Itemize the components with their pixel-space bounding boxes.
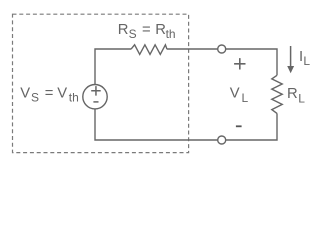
wire bottom (source down, across, up to RL): [95, 109, 277, 140]
label VS = Vth: [20, 86, 79, 105]
svg-text:R: R: [118, 22, 129, 38]
svg-text:R: R: [287, 86, 298, 102]
svg-text:V: V: [57, 86, 67, 102]
voltage source VS (circle): [83, 85, 107, 109]
resistor RS (series/Thevenin resistance): [131, 45, 167, 55]
terminal node B (bottom, open circle): [218, 136, 226, 144]
current arrow IL (downward): [290, 46, 292, 67]
svg-text:=: =: [142, 22, 151, 38]
terminal node A (top, open circle): [218, 45, 226, 53]
label plus (load polarity): [234, 58, 245, 69]
svg-text:L: L: [242, 91, 249, 105]
svg-text:S: S: [129, 27, 137, 41]
label IL: [299, 49, 310, 68]
svg-text:V: V: [20, 86, 30, 102]
svg-text:th: th: [69, 91, 79, 105]
thevenin boundary dashed box: [13, 14, 189, 152]
label minus (load polarity): [236, 125, 242, 127]
label RL: [287, 86, 305, 105]
svg-text:=: =: [45, 86, 54, 102]
resistor RL (load, vertical): [272, 75, 282, 113]
svg-text:L: L: [298, 92, 305, 106]
svg-text:R: R: [155, 22, 166, 38]
svg-text:L: L: [303, 54, 310, 68]
label RS = Rth: [118, 22, 176, 41]
svg-text:th: th: [166, 27, 176, 41]
voltage source minus sign: [93, 101, 98, 103]
wire resistor RS to terminal A and down to RL: [167, 49, 277, 75]
svg-text:S: S: [31, 91, 39, 105]
label VL: [230, 86, 249, 105]
voltage source plus sign: [91, 86, 101, 96]
svg-text:V: V: [230, 86, 240, 102]
wire top-left (source to resistor): [95, 49, 131, 85]
